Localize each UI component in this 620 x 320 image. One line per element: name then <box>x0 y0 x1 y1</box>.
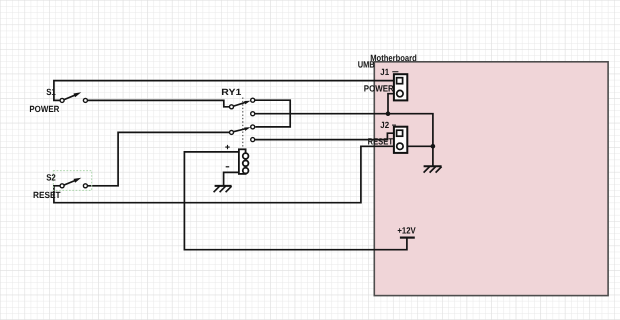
svg-text:S1: S1 <box>46 87 56 97</box>
ground (coil) <box>214 186 232 192</box>
tick J1 <box>392 71 398 73</box>
relay RY1 contact 1 <box>230 98 255 116</box>
wire +12V supply to relay coil top <box>184 152 407 250</box>
wire S2 NO to RY1 contact2 common <box>88 132 230 185</box>
svg-text:UMB: UMB <box>358 60 375 70</box>
junction B <box>431 144 436 149</box>
wire RY1 contact1 NC to ground node (y=114) <box>255 114 433 167</box>
tick J2 <box>392 124 396 126</box>
supply +12V symbol <box>400 237 415 239</box>
wire POWER net: S1 common to J1 pin 1 <box>54 81 397 101</box>
svg-text:S2: S2 <box>46 173 56 183</box>
wire RY1 contact1 NO to contact2 NO (U link) <box>255 100 290 127</box>
connector J2 <box>394 127 407 153</box>
ground (motherboard) <box>424 166 442 172</box>
relay coil RY1 <box>225 145 248 174</box>
relay RY1 contact 2 <box>230 125 255 142</box>
selection box around S2 <box>53 171 91 191</box>
svg-text:RESET: RESET <box>33 190 61 200</box>
wire S2 common to J2 pin 2 / ground junction <box>54 146 433 202</box>
wire relay coil bottom to ground <box>224 172 239 186</box>
motherboard module UMB outline <box>374 62 608 296</box>
switch S2 <box>60 178 87 188</box>
connector J1 <box>394 74 407 100</box>
wire branch to J1 pin 2 <box>388 94 397 114</box>
wire RY1 contact2 NC to J2 pin 1 (RESET) <box>255 133 397 139</box>
junction A <box>386 111 391 116</box>
svg-text:RY1: RY1 <box>221 87 241 97</box>
svg-text:POWER: POWER <box>364 84 394 94</box>
svg-text:Motherboard: Motherboard <box>370 53 417 63</box>
svg-text:RESET: RESET <box>368 137 394 147</box>
wire S1 NO terminal to RY1 contact1 common <box>88 100 230 106</box>
switch S1 <box>60 92 87 102</box>
svg-text:POWER: POWER <box>29 104 59 114</box>
svg-text:J2: J2 <box>380 120 389 130</box>
svg-text:+12V: +12V <box>397 226 415 236</box>
svg-text:J1: J1 <box>380 67 389 77</box>
relay RY1 mechanical link (dotted) <box>242 98 244 150</box>
